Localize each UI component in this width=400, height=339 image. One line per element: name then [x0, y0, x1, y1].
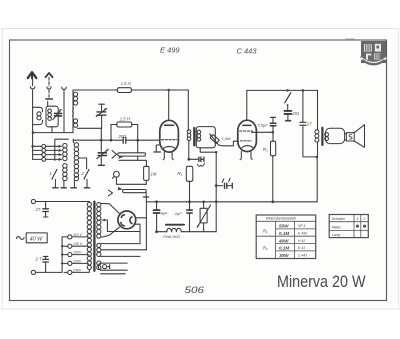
tube V2 bottom pins [240, 151, 241, 159]
publisher logo stamp [345, 38, 387, 64]
svg-text:0,1M: 0,1M [279, 246, 289, 251]
variable capacitor C-tune [99, 103, 104, 105]
IFT primary [187, 130, 191, 134]
rectifier tube [118, 211, 136, 229]
svg-text:1: 1 [356, 217, 358, 221]
svg-text:Minerva 20 W: Minerva 20 W [277, 273, 366, 291]
trimmer cap on IFT lead [215, 184, 218, 187]
svg-text:110 V: 110 V [73, 233, 83, 237]
node R2 bus [271, 200, 274, 203]
oscillator coil box [46, 106, 58, 127]
svg-text:1M: 1M [151, 172, 157, 177]
resistor 1M [144, 166, 149, 180]
node [316, 156, 319, 159]
top wire rail 2 [247, 89, 318, 91]
node [136, 139, 139, 142]
svg-text:E 499: E 499 [298, 231, 307, 235]
dial lamp [103, 265, 107, 269]
coil L5 tap to S2 [79, 158, 87, 169]
svg-text:130 V: 130 V [73, 242, 83, 246]
tap 240V [68, 270, 72, 274]
left bus for band wires [32, 133, 34, 160]
svg-text:E 499: E 499 [160, 46, 180, 55]
switch table dots [356, 225, 359, 228]
mains terminal bottom [31, 270, 35, 274]
capacitor 5uF grid [187, 158, 190, 161]
mains bottom wire [36, 271, 63, 273]
node bus x216 [215, 200, 218, 203]
node [272, 131, 275, 134]
svg-text:150V: 150V [73, 251, 82, 255]
resistor R1 [186, 166, 193, 181]
tube V1 cathode ground [156, 145, 160, 152]
band wire w4 [33, 158, 59, 160]
tap 220V [68, 261, 72, 265]
switch S1 [52, 169, 57, 179]
antenna A1 [28, 72, 36, 78]
wire IFT primary bottom down [188, 141, 190, 159]
capacitor 4uF [156, 202, 158, 210]
wire under bar B1 [119, 160, 146, 166]
node at y132 [32, 131, 35, 134]
node [110, 139, 113, 142]
power transformer primary [87, 202, 91, 206]
node [155, 230, 158, 233]
svg-text:506: 506 [185, 285, 205, 296]
wire A3 down [63, 90, 65, 133]
svg-text:2: 2 [80, 171, 84, 176]
rectifier rail [145, 202, 147, 250]
svg-text:C 443: C 443 [298, 254, 307, 258]
label ~ [16, 237, 24, 240]
node tube1 top [167, 89, 170, 92]
tube V1 bottom pins [163, 152, 164, 160]
node [31, 145, 34, 148]
switch table text [332, 217, 366, 237]
svg-text:40 W: 40 W [30, 237, 43, 243]
svg-text:1: 1 [49, 171, 52, 176]
mains top wire [36, 201, 90, 204]
band switch bar B2 [108, 190, 112, 196]
svg-text:4μF: 4μF [161, 211, 168, 216]
svg-text:2T: 2T [35, 207, 41, 212]
svg-text:Feld 2KΩ: Feld 2KΩ [163, 234, 180, 239]
bottom rail [157, 231, 167, 233]
band wire w3 [33, 154, 59, 156]
svg-text:0,5μF: 0,5μF [258, 123, 269, 128]
capacitor 27 [302, 90, 304, 122]
output transformer core [321, 128, 323, 145]
IFT core [193, 128, 195, 145]
wire tube1 top lead [168, 90, 170, 121]
capacitor 201 [285, 111, 292, 114]
voltage selector bus [61, 237, 63, 273]
svg-text:200: 200 [118, 134, 127, 139]
band wire w1 [33, 145, 59, 147]
tube C443 V2 [238, 120, 257, 151]
potentiometer [202, 201, 205, 204]
schematic border frame [10, 40, 387, 301]
coil L4 ground lead [63, 180, 65, 187]
switch S2 [84, 169, 89, 179]
power transformer core [93, 202, 95, 271]
choke 1,5H no.1 [117, 88, 131, 93]
wire IFT enclosure bottom to bus [200, 148, 216, 152]
switch S3 [285, 93, 291, 103]
input coil L1a [33, 107, 43, 111]
grid bus wire [73, 139, 123, 141]
svg-text:220V: 220V [72, 259, 82, 263]
wire bottom left horizontal [33, 132, 73, 134]
svg-text:R₁: R₁ [263, 228, 268, 233]
wire choke2 right drop [137, 140, 139, 153]
svg-text:2μF: 2μF [174, 211, 182, 216]
rectifier filament wire [134, 224, 140, 243]
svg-text:H 42: H 42 [298, 239, 305, 243]
svg-text:0,1M: 0,1M [279, 231, 289, 236]
node [100, 139, 103, 142]
svg-text:2 T: 2 T [35, 256, 42, 261]
capacitor 2T upper [45, 202, 47, 209]
capacitor 2T lower [45, 262, 47, 272]
coil L4 [55, 139, 69, 160]
pickup loop [114, 171, 120, 177]
svg-text:Lang: Lang [332, 233, 340, 237]
node switch top [286, 89, 289, 92]
resistor table text [263, 217, 307, 258]
tap 130V [68, 244, 72, 248]
output transformer secondary [325, 133, 329, 137]
svg-text:50W: 50W [279, 224, 289, 229]
transformer secondary to rectifier wires [100, 203, 119, 213]
svg-text:1,5M: 1,5M [222, 136, 232, 141]
rectifier anode wire [136, 217, 147, 219]
svg-text:240V: 240V [72, 268, 82, 272]
wire to pickup loop [122, 183, 147, 185]
IFT secondary enclosure [196, 127, 215, 148]
field coil choke [166, 224, 184, 226]
svg-text:R₁: R₁ [177, 171, 182, 176]
wire IFT top lead [187, 90, 189, 131]
mains terminal top [31, 199, 35, 203]
B+ bus [146, 201, 317, 203]
centre tap wire [102, 220, 140, 232]
band wire w2 [33, 149, 59, 151]
top wire rail 1 [73, 89, 117, 91]
fuse box 40W [26, 233, 47, 243]
svg-text:NF 4: NF 4 [298, 224, 305, 228]
tap 150V [68, 253, 72, 257]
svg-text:Schalter: Schalter [332, 217, 346, 221]
variable resistor 1,5M [210, 135, 219, 144]
svg-text:E 43: E 43 [298, 246, 305, 250]
power transformer secondary heater2 [97, 261, 101, 265]
power transformer secondary heater1 [97, 243, 101, 247]
wire to tube2 grid [219, 141, 239, 146]
coil L5 [72, 139, 74, 143]
trimmer capacitor in osc box [55, 113, 62, 116]
svg-text:30W: 30W [279, 253, 289, 258]
choke 1,5H no.2 [117, 122, 132, 127]
antenna A2 [46, 73, 53, 77]
svg-text:201: 201 [291, 111, 299, 116]
svg-text:R₂: R₂ [263, 147, 268, 152]
svg-text:Widerstandstabelle: Widerstandstabelle [266, 217, 297, 221]
wire down to bus [316, 157, 318, 202]
capacitor 2uF [189, 202, 191, 210]
wire anode V2 right [252, 131, 273, 133]
wire A1 down [32, 90, 34, 133]
tube V2 top lead [246, 90, 248, 120]
svg-text:C 443: C 443 [237, 47, 258, 56]
loudspeaker coil box [346, 133, 354, 141]
heater wires [101, 243, 140, 245]
svg-text:1,5 H: 1,5 H [121, 81, 132, 86]
coil L5 ground lead [73, 181, 75, 188]
RF coil L3 [72, 90, 74, 133]
capacitor 200 [123, 137, 126, 143]
node bus x189 [188, 200, 191, 203]
resistor R2 [271, 141, 276, 156]
svg-text:40W: 40W [278, 238, 289, 243]
node bus x156 [155, 200, 158, 203]
loudspeaker cone [354, 125, 364, 148]
capacitor 0,5uF [271, 116, 276, 118]
power transformer secondary HT [97, 203, 101, 207]
node cap27 top [302, 89, 305, 92]
tap 110V [68, 235, 72, 239]
wire C-tune down to bus [100, 128, 102, 151]
wire coil tap to C-tune [78, 127, 102, 129]
svg-text:1,5 H: 1,5 H [120, 116, 131, 121]
svg-text:2: 2 [362, 217, 365, 221]
output transformer primary [317, 90, 319, 129]
loudspeaker body [325, 128, 344, 143]
trimmer capacitor under [98, 153, 106, 156]
antenna A3 [62, 87, 67, 89]
svg-text:R₂: R₂ [263, 246, 268, 251]
svg-text:Mittel: Mittel [332, 225, 341, 229]
resistor table frame [256, 215, 316, 259]
tube E499 V1 [160, 120, 179, 152]
svg-text:27: 27 [306, 121, 312, 126]
band switch bar B1 [112, 150, 117, 158]
switch table frame [329, 215, 368, 238]
